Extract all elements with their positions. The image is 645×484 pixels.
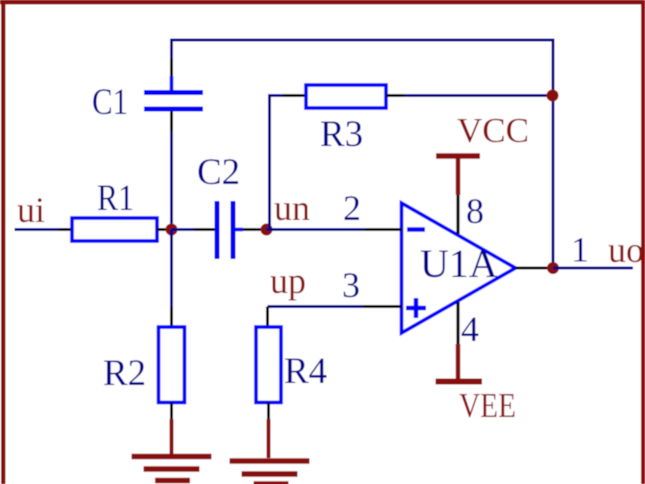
op-amp U1A: [402, 203, 516, 333]
svg-text:up: up: [270, 261, 306, 301]
svg-text:un: un: [274, 188, 310, 228]
wire up / pin3: [268, 305, 364, 308]
wire R2 branch: [170, 230, 173, 308]
svg-text:uo: uo: [608, 230, 644, 270]
svg-text:R2: R2: [103, 353, 146, 394]
resistor R4: [256, 307, 281, 420]
capacitor C1: [144, 58, 203, 131]
svg-text:VEE: VEE: [459, 386, 516, 425]
svg-text:1: 1: [571, 230, 589, 270]
wire R3 to right rail: [404, 94, 553, 97]
wire un up to R3: [270, 96, 284, 230]
wire node A to C2: [172, 228, 195, 231]
capacitor C2: [195, 201, 264, 259]
wire output uo: [553, 267, 633, 270]
wire R2 to ground: [170, 419, 174, 456]
svg-text:2: 2: [343, 188, 361, 228]
VEE symbol: [436, 344, 483, 382]
wire input ui: [15, 228, 60, 231]
pin 8: [456, 195, 459, 234]
resistor R1: [59, 218, 172, 241]
svg-text:VCC: VCC: [457, 111, 529, 150]
svg-text:8: 8: [466, 191, 484, 231]
node A junction: [166, 224, 178, 236]
svg-text:C1: C1: [92, 82, 128, 123]
resistor R3: [283, 85, 404, 108]
pin 3: [364, 305, 402, 308]
wire R4 to ground: [267, 419, 271, 458]
svg-text:ui: ui: [17, 190, 45, 230]
svg-text:C2: C2: [197, 152, 240, 193]
VCC symbol: [436, 156, 480, 195]
pin 1 output: [516, 267, 554, 270]
node output junction: [547, 262, 559, 274]
svg-text:3: 3: [342, 265, 360, 305]
pin 4: [456, 302, 459, 344]
junction R3/rail: [547, 90, 559, 102]
resistor R2: [159, 307, 185, 419]
wire un to pin2: [267, 228, 366, 231]
ground (R2): [132, 457, 212, 481]
svg-text:4: 4: [461, 309, 479, 349]
svg-text:U1A: U1A: [420, 241, 498, 286]
svg-text:R1: R1: [97, 178, 134, 219]
ground (R4): [230, 461, 310, 484]
svg-text:R3: R3: [320, 114, 363, 155]
node un junction: [261, 224, 273, 236]
wire top rail: [172, 40, 554, 268]
pin 2: [365, 228, 402, 231]
svg-text:R4: R4: [284, 351, 327, 392]
wire top feedback: [170, 131, 173, 230]
